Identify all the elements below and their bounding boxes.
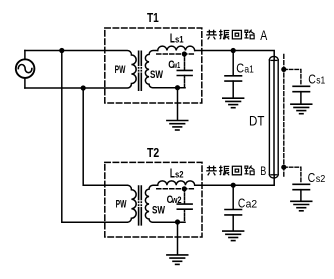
dashed tap line under Ls2 bbox=[157, 188, 195, 190]
wire: top AC wire + transformer T1 primary outline PW bbox=[25, 51, 136, 89]
svg-text:C: C bbox=[308, 170, 316, 185]
capacitor Ca2 bottom lead bbox=[232, 215, 234, 231]
svg-text:C: C bbox=[238, 196, 245, 211]
AC source sine wave bbox=[18, 65, 32, 73]
node: Ca1 tap dot bbox=[231, 48, 236, 53]
svg-text:C: C bbox=[236, 62, 244, 76]
capacitor Cw1 dashed bottom lead bbox=[184, 76, 186, 88]
svg-text:C: C bbox=[308, 72, 316, 87]
ground under Cs1 bbox=[291, 104, 312, 114]
wire: T2 output to lamp bottom bbox=[195, 175, 275, 185]
transformer T2 secondary winding SW bbox=[145, 185, 185, 222]
node: dot on Ls1 tap bbox=[182, 51, 187, 56]
inductor Ls1 (leakage) coil bbox=[158, 46, 195, 50]
svg-text:w1: w1 bbox=[172, 60, 180, 70]
svg-text:s1: s1 bbox=[175, 35, 184, 46]
discharge tube inner column bbox=[273, 60, 275, 174]
discharge tube DT body bbox=[269, 60, 278, 175]
capacitor Ca1 plates bbox=[225, 76, 242, 81]
transformer T1 core lines bbox=[138, 51, 140, 92]
wire: right bus from bottom wire down to T2 PW top bbox=[83, 88, 127, 185]
node: dot SW2 bottom / ground tap bbox=[175, 219, 180, 224]
inductor Ls2 (leakage) coil bbox=[158, 181, 195, 185]
transformer T1 secondary winding SW bbox=[145, 51, 185, 88]
capacitor Cs1 dashed leads bbox=[284, 69, 301, 85]
node: Ca2 tap dot bbox=[231, 183, 236, 188]
transformer T2 primary outline PW bbox=[127, 185, 136, 222]
capacitor Cw2 dashed top lead bbox=[184, 189, 186, 204]
node: Cs2 tap dot bbox=[281, 165, 286, 170]
wire: T1 output to lamp bbox=[195, 51, 275, 61]
label 共振回路 B bbox=[206, 165, 254, 175]
svg-text:T2: T2 bbox=[147, 145, 159, 160]
ground under T1 bbox=[167, 121, 188, 131]
dashed tap line under Ls1 bbox=[157, 53, 195, 55]
svg-text:T1: T1 bbox=[147, 10, 159, 25]
capacitor Cs2 dashed leads bbox=[284, 167, 301, 183]
capacitor Cs2 bottom lead bbox=[300, 190, 302, 201]
ground under Ca1 bbox=[223, 98, 244, 108]
AC source V1 circle bbox=[16, 59, 35, 78]
dashed box T2 bbox=[105, 162, 202, 237]
svg-text:w2: w2 bbox=[171, 195, 182, 205]
svg-text:s2: s2 bbox=[316, 174, 326, 185]
svg-text:A: A bbox=[260, 27, 267, 43]
node: dot SW1 bottom / ground tap bbox=[175, 85, 180, 90]
capacitor Cw2 plates bbox=[177, 204, 192, 209]
node: dot on Ls2 tap bbox=[182, 186, 187, 191]
capacitor Ca1 lead bbox=[232, 51, 234, 76]
svg-text:B: B bbox=[260, 166, 266, 178]
label 共振回路 A bbox=[206, 30, 254, 40]
svg-text:SW: SW bbox=[152, 204, 165, 216]
electrode top bbox=[271, 59, 277, 61]
capacitor Ca2 lead bbox=[232, 185, 234, 209]
ground under T2 bbox=[167, 255, 188, 265]
ground under Cs2 bbox=[291, 201, 312, 211]
svg-text:PW: PW bbox=[116, 199, 127, 211]
node: Cs1 tap dot bbox=[281, 67, 286, 72]
capacitor Cs1 bottom lead bbox=[300, 92, 302, 104]
svg-text:DT: DT bbox=[249, 112, 265, 128]
wire: ground wire T1 bbox=[177, 88, 179, 120]
capacitor Ca2 plates bbox=[225, 210, 242, 215]
dashed box T1 bbox=[105, 28, 202, 103]
wire: left bus from top wire down to T2 PW bottom bbox=[62, 51, 128, 223]
wire: ground wire T2 bbox=[177, 222, 179, 254]
AC source bottom lead bbox=[24, 78, 26, 88]
svg-text:s2: s2 bbox=[175, 169, 184, 180]
AC source top lead bbox=[24, 51, 26, 60]
svg-text:a1: a1 bbox=[244, 64, 254, 76]
svg-text:SW: SW bbox=[150, 69, 163, 81]
node: junction dot top bus bbox=[59, 48, 64, 53]
dashed stray-capacitance line bbox=[283, 55, 285, 177]
svg-text:a2: a2 bbox=[246, 199, 258, 211]
capacitor Cs1 plates bbox=[293, 86, 309, 91]
ground under Ca2 bbox=[223, 231, 244, 241]
capacitor Cw2 dashed bottom lead bbox=[184, 209, 186, 222]
capacitor Cs2 plates bbox=[293, 184, 309, 189]
capacitor Cw1 dashed top lead bbox=[184, 54, 186, 70]
transformer T2 core lines bbox=[138, 185, 140, 225]
capacitor Cw1 plates bbox=[177, 70, 192, 75]
svg-text:s1: s1 bbox=[316, 76, 325, 87]
capacitor Ca1 bottom lead bbox=[232, 81, 234, 98]
electrode bottom bbox=[271, 174, 277, 176]
svg-text:PW: PW bbox=[115, 64, 126, 76]
node: junction dot bottom bus bbox=[81, 85, 86, 90]
